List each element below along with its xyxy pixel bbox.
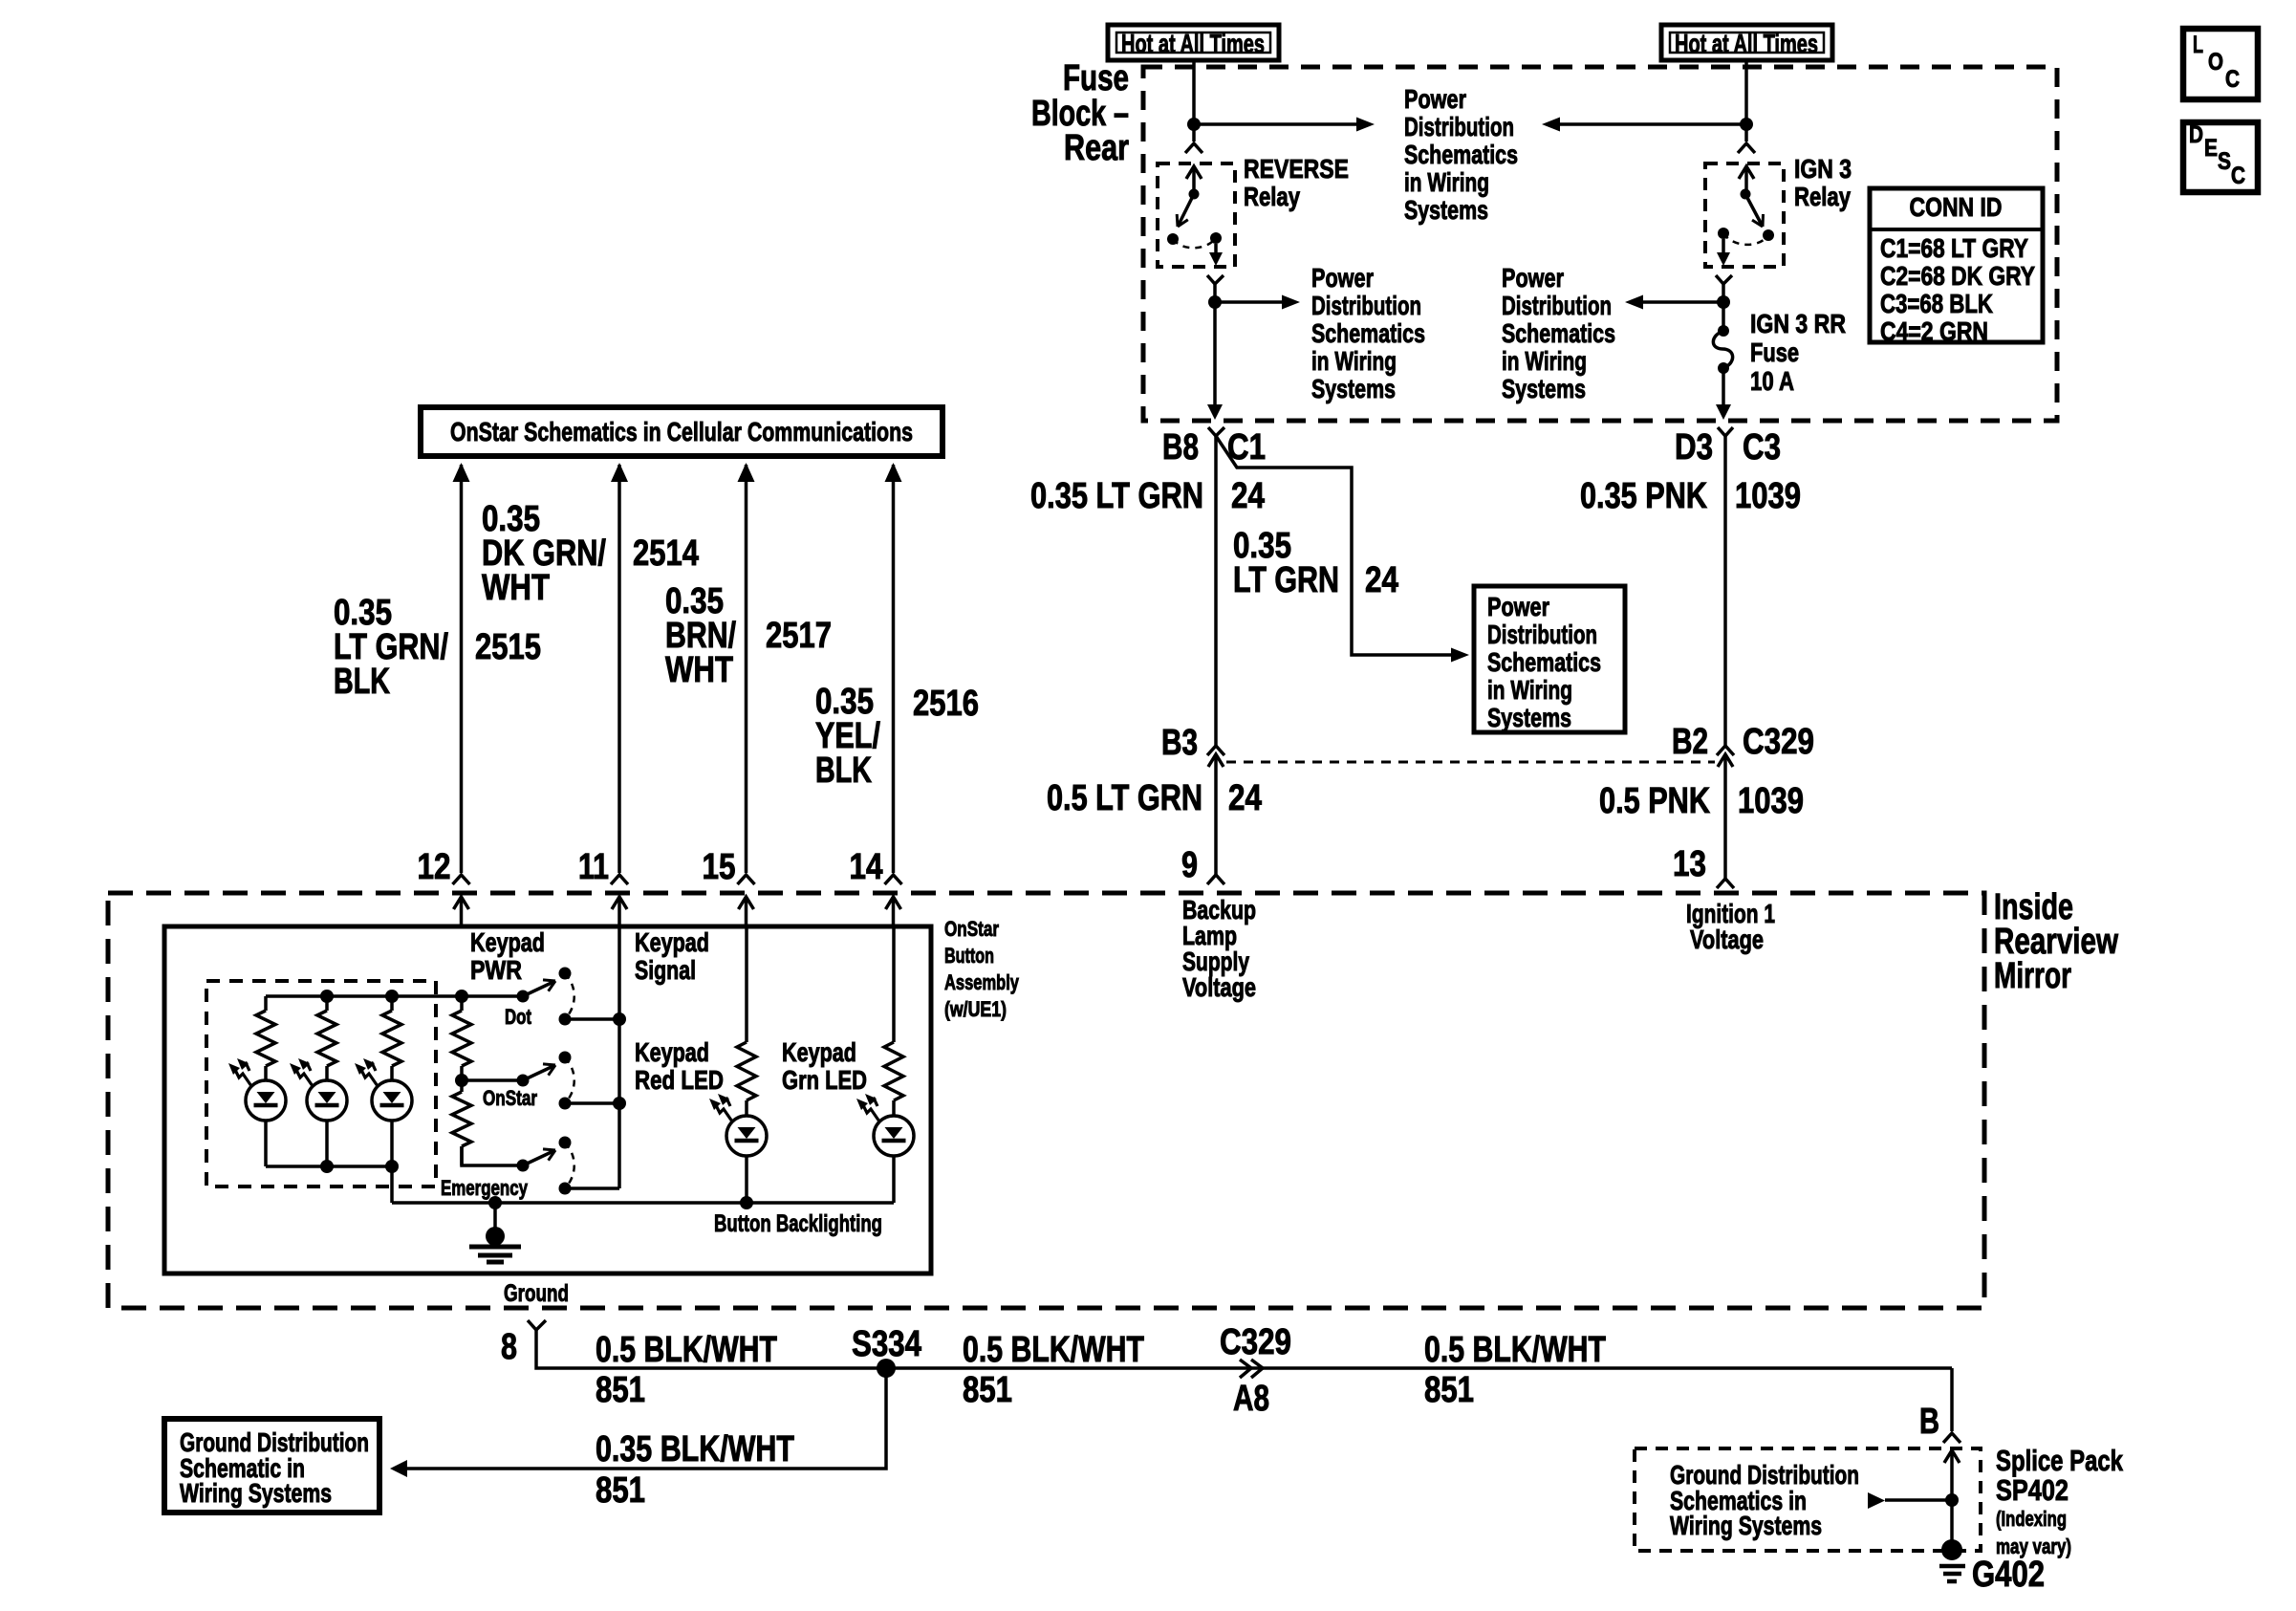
relay K2: IGN 3 Relay dashed box bbox=[1705, 163, 1784, 267]
wire 2514 from mirror pin 11 up to OnStar schematics bbox=[617, 465, 621, 873]
svg-text:13: 13 bbox=[1673, 844, 1706, 884]
svg-text:B2: B2 bbox=[1672, 722, 1708, 762]
junction red LED to backlight bus bbox=[740, 1196, 753, 1209]
svg-text:2515: 2515 bbox=[475, 627, 541, 667]
svg-text:C3=68 BLK: C3=68 BLK bbox=[1880, 289, 1993, 318]
wire from right Hot at All Times down to IGN 3 relay bbox=[1744, 60, 1748, 142]
wire from REVERSE relay output down to fuse box edge bbox=[1213, 302, 1217, 405]
wire to ground G402 bbox=[1950, 1500, 1954, 1544]
svg-text:OnStar Schematics in Cellular: OnStar Schematics in Cellular Communicat… bbox=[450, 417, 913, 446]
svg-text:9: 9 bbox=[1181, 845, 1198, 885]
DESC reference box bbox=[2183, 122, 2258, 192]
arrow into mirror at pin 14 bbox=[886, 897, 901, 909]
svg-text:OnStar: OnStar bbox=[483, 1086, 537, 1110]
connector B8 / C1 (in-line) bbox=[1208, 427, 1224, 436]
indicator LED cluster dashed box bbox=[206, 981, 436, 1186]
svg-text:B: B bbox=[1919, 1402, 1939, 1442]
dashed wire between B3 and B2 connectors bbox=[1226, 761, 1715, 764]
svg-text:8: 8 bbox=[501, 1327, 517, 1367]
connector pin 9 chevron bbox=[1207, 875, 1224, 884]
svg-text:Button: Button bbox=[944, 944, 994, 968]
svg-text:(Indexing: (Indexing bbox=[1996, 1507, 2067, 1531]
svg-text:851: 851 bbox=[596, 1370, 645, 1410]
IGN 3 relay switch arm bbox=[1745, 194, 1763, 227]
connector chevron above REVERSE relay bbox=[1185, 143, 1202, 153]
svg-text:24: 24 bbox=[1365, 560, 1398, 600]
keypad red LED bbox=[724, 1099, 731, 1107]
IGN 3 relay fixed contact (right) bbox=[1763, 229, 1774, 241]
Inside Rearview Mirror dashed boundary bbox=[108, 893, 1984, 1308]
svg-text:(w/UE1): (w/UE1) bbox=[944, 997, 1007, 1021]
wire 24 branch from C1 (diagonal) bbox=[1216, 436, 1451, 655]
CONN ID table bbox=[1870, 188, 2043, 342]
svg-text:Systems: Systems bbox=[1404, 195, 1488, 225]
svg-text:D: D bbox=[2189, 121, 2203, 148]
svg-text:Keypad: Keypad bbox=[635, 927, 709, 957]
svg-text:in Wiring: in Wiring bbox=[1311, 346, 1397, 376]
relay K1: REVERSE Relay dashed box bbox=[1158, 163, 1235, 267]
REVERSE relay switch arm bbox=[1178, 194, 1194, 227]
junction Dot output on signal wire bbox=[613, 1012, 626, 1026]
svg-text:in Wiring: in Wiring bbox=[1404, 167, 1489, 197]
top bus inside button assembly bbox=[266, 994, 462, 998]
svg-text:Distribution: Distribution bbox=[1404, 112, 1514, 142]
svg-text:C1=68 LT GRY: C1=68 LT GRY bbox=[1880, 233, 2028, 263]
svg-text:C2=68 DK GRY: C2=68 DK GRY bbox=[1880, 261, 2035, 291]
svg-text:0.35 PNK: 0.35 PNK bbox=[1580, 476, 1707, 516]
svg-text:2516: 2516 bbox=[913, 684, 979, 724]
svg-text:Fuse: Fuse bbox=[1063, 58, 1129, 98]
backlight LED branch 3 resistor bbox=[385, 990, 399, 1003]
svg-text:Distribution: Distribution bbox=[1502, 291, 1612, 320]
svg-text:0.5 BLK/WHT: 0.5 BLK/WHT bbox=[1424, 1330, 1606, 1370]
switch: Emergency button bbox=[517, 1160, 530, 1172]
wire 2517 from mirror pin 15 up to OnStar schematics bbox=[745, 465, 748, 873]
svg-text:Assembly: Assembly bbox=[944, 970, 1020, 994]
svg-text:Systems: Systems bbox=[1502, 374, 1586, 403]
svg-text:S: S bbox=[2218, 148, 2231, 175]
svg-text:Hot at All Times: Hot at All Times bbox=[1121, 29, 1265, 58]
svg-text:Rear: Rear bbox=[1064, 128, 1129, 168]
connector pin 14 chevron bbox=[885, 875, 902, 884]
svg-text:Systems: Systems bbox=[1311, 374, 1396, 403]
svg-text:Distribution: Distribution bbox=[1487, 620, 1597, 649]
svg-text:851: 851 bbox=[963, 1370, 1012, 1410]
arrow into mirror at pin 12 bbox=[454, 897, 469, 909]
backlight LED branch 2 resistor bbox=[320, 990, 334, 1003]
power label box: Hot at All Times (right) bbox=[1661, 25, 1832, 60]
connector chevron above IGN 3 relay bbox=[1738, 143, 1755, 153]
svg-text:IGN 3: IGN 3 bbox=[1794, 154, 1852, 184]
REVERSE relay contact travel dashed arc bbox=[1173, 238, 1216, 248]
wire arrow to Power Distribution Schematics (top left) bbox=[1194, 122, 1357, 126]
REVERSE relay fixed contact (left) bbox=[1167, 233, 1179, 245]
svg-text:C329: C329 bbox=[1220, 1322, 1291, 1362]
wire 2516 from mirror pin 14 up to OnStar schematics bbox=[892, 465, 896, 873]
keypad signal wire bbox=[617, 925, 621, 1188]
keypad green LED bbox=[871, 1099, 878, 1107]
wire B8 backup lamp supply down to B3 bbox=[1214, 436, 1218, 746]
svg-text:S334: S334 bbox=[852, 1324, 921, 1364]
wire arrow from right hot feed to Power Distribution Schematics (top) bbox=[1559, 122, 1746, 126]
svg-text:2517: 2517 bbox=[766, 616, 832, 656]
arrow into splice pack bbox=[1944, 1450, 1960, 1463]
svg-text:851: 851 bbox=[1424, 1370, 1474, 1410]
arrow at fuse block boundary (left) bbox=[1207, 404, 1223, 420]
connector chevron below REVERSE relay bbox=[1207, 275, 1224, 284]
wire 2515 from mirror pin 12 up to OnStar schematics bbox=[460, 465, 464, 873]
svg-text:C329: C329 bbox=[1743, 722, 1814, 762]
svg-text:Relay: Relay bbox=[1244, 182, 1300, 211]
svg-text:Ground: Ground bbox=[504, 1280, 569, 1307]
svg-text:in Wiring: in Wiring bbox=[1487, 675, 1572, 705]
junction below IGN 3 relay bbox=[1717, 295, 1730, 309]
svg-text:15: 15 bbox=[703, 847, 736, 887]
svg-text:SP402: SP402 bbox=[1996, 1473, 2069, 1507]
REVERSE relay coil-side arrow into box bbox=[1186, 166, 1202, 179]
svg-text:WHT: WHT bbox=[665, 650, 733, 690]
svg-text:C4=2 GRN: C4=2 GRN bbox=[1880, 316, 1988, 346]
svg-text:Grn LED: Grn LED bbox=[782, 1065, 867, 1095]
corner to Emergency switch bbox=[462, 1146, 523, 1165]
svg-text:0.5 BLK/WHT: 0.5 BLK/WHT bbox=[596, 1330, 777, 1370]
svg-text:Power: Power bbox=[1502, 263, 1564, 293]
splice pack SP402 dashed box bbox=[1635, 1448, 1981, 1551]
backlight LED branch 1 LED bbox=[243, 1064, 250, 1072]
svg-text:1039: 1039 bbox=[1735, 476, 1801, 516]
switch: OnStar button bbox=[462, 1078, 523, 1082]
arrow at fuse block boundary (right) bbox=[1716, 404, 1731, 420]
fuse F1: IGN 3 RR Fuse 10 A bbox=[1722, 302, 1725, 331]
wire into mirror pin 9 bbox=[1214, 788, 1218, 875]
backlight LED branch 3 LED bbox=[369, 1064, 377, 1072]
wire arrow to Power Distribution Schematics (lower left) bbox=[1215, 300, 1283, 304]
svg-text:0.35 BLK/WHT: 0.35 BLK/WHT bbox=[596, 1429, 794, 1469]
junction on right hot feed bbox=[1740, 118, 1753, 131]
svg-text:LT GRN: LT GRN bbox=[1233, 560, 1339, 600]
svg-text:B8: B8 bbox=[1162, 427, 1199, 468]
svg-text:Keypad: Keypad bbox=[782, 1037, 856, 1067]
svg-text:L: L bbox=[2193, 32, 2203, 58]
svg-text:OnStar: OnStar bbox=[944, 917, 999, 941]
svg-text:Splice Pack: Splice Pack bbox=[1996, 1444, 2124, 1477]
IGN 3 relay contact travel dashed arc bbox=[1723, 233, 1768, 245]
IGN 3 relay output arrow down bbox=[1722, 239, 1725, 260]
connector pin 15 chevron bbox=[738, 875, 755, 884]
svg-text:Signal: Signal bbox=[635, 955, 696, 985]
svg-text:0.5 PNK: 0.5 PNK bbox=[1599, 781, 1710, 821]
svg-text:Power: Power bbox=[1487, 592, 1549, 621]
svg-text:Voltage: Voltage bbox=[1182, 972, 1256, 1002]
node: Ground Distribution Schematic in Wiring Systems box bbox=[164, 1419, 379, 1513]
node: OnStar Schematics in Cellular Communications box bbox=[421, 407, 942, 456]
svg-text:IGN 3 RR: IGN 3 RR bbox=[1750, 309, 1846, 338]
svg-text:Schematics: Schematics bbox=[1404, 140, 1518, 169]
OnStar Button Assembly box bbox=[164, 926, 931, 1274]
svg-text:2514: 2514 bbox=[633, 533, 699, 574]
switch: Dot button bbox=[462, 994, 523, 998]
wire from fuse down to fuse box edge bbox=[1722, 368, 1725, 405]
connector C329 in-line on ground wire bbox=[1240, 1360, 1251, 1378]
svg-text:0.5 BLK/WHT: 0.5 BLK/WHT bbox=[963, 1330, 1144, 1370]
ground G402 symbol bbox=[1941, 1539, 1962, 1560]
svg-text:14: 14 bbox=[850, 847, 883, 887]
wire into mirror pin 13 bbox=[1723, 788, 1727, 879]
fuse block - rear dashed boundary box bbox=[1143, 67, 2057, 421]
splice S334 bbox=[877, 1359, 896, 1378]
svg-text:Dot: Dot bbox=[505, 1005, 532, 1029]
svg-text:24: 24 bbox=[1231, 476, 1265, 516]
svg-text:O: O bbox=[2208, 49, 2223, 76]
svg-text:0.5 LT GRN: 0.5 LT GRN bbox=[1047, 778, 1202, 818]
svg-text:D3: D3 bbox=[1675, 427, 1713, 468]
svg-text:Button Backlighting: Button Backlighting bbox=[714, 1210, 882, 1237]
svg-text:Systems: Systems bbox=[1487, 703, 1571, 732]
svg-text:851: 851 bbox=[596, 1470, 645, 1511]
svg-text:B3: B3 bbox=[1161, 723, 1198, 763]
svg-text:BLK: BLK bbox=[334, 662, 390, 702]
svg-text:Schematics: Schematics bbox=[1487, 647, 1601, 677]
junction in splice pack bbox=[1945, 1493, 1959, 1507]
wire from left Hot at All Times down to REVERSE relay bbox=[1192, 60, 1196, 142]
svg-text:Wiring Systems: Wiring Systems bbox=[1670, 1511, 1822, 1540]
svg-text:Fuse: Fuse bbox=[1750, 337, 1799, 367]
svg-text:E: E bbox=[2204, 135, 2218, 162]
connector pin 11 chevron bbox=[611, 875, 628, 884]
svg-text:Distribution: Distribution bbox=[1311, 291, 1421, 320]
svg-text:Power: Power bbox=[1311, 263, 1374, 293]
wire D3 ignition feed down to B2 bbox=[1723, 436, 1727, 746]
IGN 3 relay coil-side arrow into box bbox=[1739, 166, 1754, 179]
reference arrow inside splice pack bbox=[1868, 1492, 1885, 1509]
svg-text:1039: 1039 bbox=[1738, 781, 1804, 821]
arrow into mirror at pin 11 bbox=[612, 897, 627, 909]
svg-text:Mirror: Mirror bbox=[1994, 956, 2071, 996]
connector pin 12 chevron bbox=[453, 875, 470, 884]
bottom backlighting bus bbox=[392, 1201, 894, 1205]
ground wire from pin 8 to splice pack bbox=[536, 1330, 1952, 1368]
svg-text:WHT: WHT bbox=[482, 568, 550, 608]
svg-text:C: C bbox=[2231, 163, 2245, 189]
LOC reference box bbox=[2183, 29, 2258, 99]
REVERSE relay output arrow down bbox=[1214, 244, 1218, 260]
power label box: Hot at All Times (left) bbox=[1108, 25, 1279, 60]
backlight LED branch 1 resistor bbox=[264, 996, 268, 1011]
svg-text:PWR: PWR bbox=[470, 955, 522, 985]
svg-text:Power: Power bbox=[1404, 84, 1466, 114]
svg-text:10 A: 10 A bbox=[1750, 366, 1794, 396]
svg-text:in Wiring: in Wiring bbox=[1502, 346, 1587, 376]
IGN 3 relay output contact (left) bbox=[1718, 228, 1729, 239]
svg-text:may vary): may vary) bbox=[1996, 1535, 2071, 1558]
svg-text:BLK: BLK bbox=[815, 751, 872, 791]
branch from S334 down to ground distribution reference bbox=[406, 1368, 886, 1469]
backlight LED branch 2 LED bbox=[304, 1064, 312, 1072]
svg-text:CONN ID: CONN ID bbox=[1910, 192, 2003, 222]
junction on left hot feed bbox=[1187, 118, 1201, 131]
junction to OnStar switch bbox=[455, 1074, 468, 1087]
svg-text:C: C bbox=[2225, 66, 2240, 93]
REVERSE relay armature pivot bbox=[1189, 189, 1200, 200]
arrow into mirror at pin 15 bbox=[739, 897, 754, 909]
svg-text:G402: G402 bbox=[1972, 1555, 2045, 1595]
node: Power Distribution Schematics in Wiring Systems (boxed) bbox=[1474, 586, 1625, 732]
ground symbol inside button assembly bbox=[486, 1227, 505, 1246]
svg-text:REVERSE: REVERSE bbox=[1244, 154, 1349, 184]
wire from LED cluster to bottom bus bbox=[390, 1166, 394, 1203]
junction OnStar output on signal wire bbox=[613, 1097, 626, 1110]
keypad PWR resistor chain bbox=[455, 990, 468, 1003]
svg-text:A8: A8 bbox=[1233, 1379, 1269, 1419]
keypad red LED branch resistor bbox=[745, 925, 748, 1042]
svg-text:Hot at All Times: Hot at All Times bbox=[1675, 29, 1818, 58]
svg-text:Schematics: Schematics bbox=[1502, 318, 1615, 348]
svg-text:Relay: Relay bbox=[1794, 182, 1851, 211]
internal ground stem bbox=[488, 1196, 502, 1209]
svg-text:Voltage: Voltage bbox=[1690, 925, 1764, 954]
svg-text:12: 12 bbox=[418, 847, 451, 887]
connector chevron below IGN 3 relay bbox=[1716, 275, 1732, 284]
REVERSE relay output contact (right) bbox=[1210, 232, 1222, 244]
connector D3 / C3 (in-line) bbox=[1718, 427, 1733, 436]
svg-text:Emergency: Emergency bbox=[441, 1176, 529, 1200]
svg-text:Wiring Systems: Wiring Systems bbox=[180, 1478, 332, 1508]
connector pin 13 chevron bbox=[1717, 879, 1734, 888]
keypad green LED branch resistor bbox=[892, 925, 896, 1042]
wire arrow to Power Distribution Schematics (lower right) bbox=[1642, 300, 1723, 304]
svg-text:11: 11 bbox=[578, 847, 609, 887]
bottom bus of LED cluster bbox=[266, 1165, 392, 1168]
svg-text:Red LED: Red LED bbox=[635, 1065, 724, 1095]
svg-text:Keypad: Keypad bbox=[635, 1037, 709, 1067]
svg-text:0.35 LT GRN: 0.35 LT GRN bbox=[1030, 476, 1203, 516]
svg-text:24: 24 bbox=[1228, 778, 1262, 818]
IGN 3 relay armature pivot bbox=[1741, 189, 1751, 200]
wire corner down to splice pack SP402 bbox=[1950, 1368, 1954, 1431]
svg-text:C3: C3 bbox=[1743, 427, 1781, 468]
svg-text:Schematics: Schematics bbox=[1311, 318, 1425, 348]
junction below REVERSE relay bbox=[1208, 295, 1222, 309]
svg-text:Keypad: Keypad bbox=[470, 927, 545, 957]
